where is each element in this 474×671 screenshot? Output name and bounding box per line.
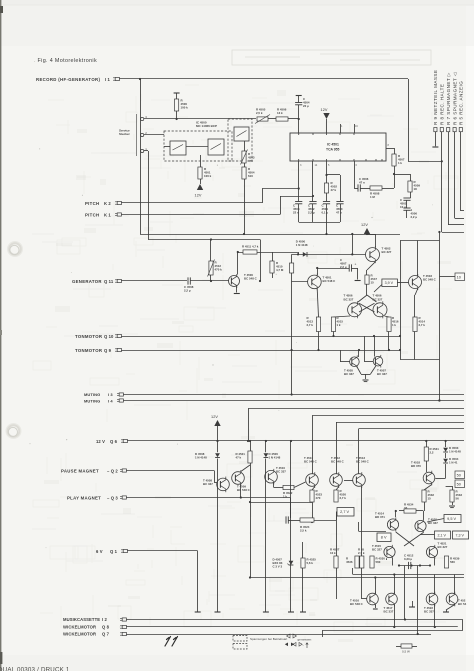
svg-text:BC 337: BC 337 [344, 372, 354, 376]
connector Q2 [120, 468, 122, 470]
svg-text:K 1: K 1 [104, 213, 111, 218]
wire emitter T4521 down [434, 558, 436, 565]
node on R8 line [441, 160, 443, 162]
svg-text:Stecker: Stecker [119, 132, 131, 136]
svg-text:BC 548 C: BC 548 C [237, 488, 251, 492]
wire service contact 3 rail y119 [144, 118, 256, 120]
svg-text:MUTING: MUTING [84, 392, 100, 397]
transistor Q4503 BC548C [409, 274, 422, 290]
diode D4508 1N4148 [217, 441, 219, 452]
voltage 8V [377, 533, 391, 542]
wire I2 wrap [462, 620, 464, 631]
connector Q11 [115, 279, 117, 281]
wire T4523 emitter [446, 605, 455, 611]
wire R4521 T4512 join [250, 502, 312, 504]
wire bottom bus [399, 565, 430, 567]
resistor R4503 470 trimmer [242, 151, 246, 163]
IC bottom pin stub 6 [354, 161, 356, 188]
ground bar above R4500 [174, 92, 180, 94]
svg-text:2,5 k: 2,5 k [256, 111, 263, 115]
diode D4506 1N4148 [265, 441, 267, 452]
wire bus line y415.5 [312, 415, 464, 417]
wire T4516 emitter gnd [375, 605, 377, 609]
transistor Q4509 BC548C [232, 470, 245, 486]
wire to 9.5V [427, 519, 444, 523]
connector Q9 [115, 348, 117, 350]
svg-text:gemessen: gemessen [298, 638, 312, 642]
wire T4514 base [359, 531, 386, 533]
diode D4507 BZX83 C3V3 zener [289, 561, 294, 565]
wire T4507 base feed [364, 336, 366, 361]
wire T4501 emitter [317, 289, 318, 317]
wire R4533 top [452, 486, 454, 490]
IC top pin stubs [340, 124, 342, 133]
wire T4503 collector [417, 241, 419, 276]
svg-text:BC 548 C: BC 548 C [356, 460, 370, 464]
IC U4501 TCA955 box [290, 133, 386, 161]
svg-text:BC 548 C: BC 548 C [350, 602, 364, 606]
transistor Q4522 BC337 [426, 592, 438, 607]
wire cap to ground [352, 268, 358, 270]
capacitor C4507 2.2u [348, 264, 350, 271]
resistor R4536 560 [355, 556, 359, 568]
transistor Q4521 BC327 [426, 545, 437, 559]
svg-text:I 2: I 2 [102, 617, 108, 622]
wire cap ground bus [299, 222, 340, 224]
supply 12V below R4501 [200, 179, 202, 184]
resistor R4547 15 [365, 275, 369, 284]
resistor R4500 100k [176, 93, 178, 99]
svg-text:2,7 V: 2,7 V [340, 510, 349, 514]
wire PAUSE MAGNET Q2 line [127, 470, 215, 472]
svg-text:BC 337: BC 337 [276, 470, 286, 474]
wire T4505 base feed [340, 350, 342, 362]
svg-text:47 n: 47 n [359, 181, 365, 185]
wire R4523 down [312, 502, 314, 522]
wire cross couple 2 [359, 303, 375, 312]
svg-text:I 1: I 1 [105, 77, 111, 82]
wire GENERATOR Q11 line [122, 280, 188, 282]
svg-text:R 7 SPURMAGNET ▷: R 7 SPURMAGNET ▷ [446, 72, 451, 125]
wire [288, 118, 299, 120]
wire T4506a emitter [334, 316, 351, 317]
svg-text:PAUSE MAGNET: PAUSE MAGNET [61, 469, 99, 474]
feedback loop wires [400, 240, 439, 242]
svg-text:PITCH: PITCH [85, 201, 99, 206]
svg-text:Spannungen bei Betriebsart: Spannungen bei Betriebsart [250, 637, 287, 641]
wire WICKELMOTOR Q7 line [127, 634, 432, 636]
svg-text:560: 560 [376, 560, 381, 564]
wire contact1 rail [144, 150, 148, 152]
svg-text:DUAL 00303 / DRUCK 1: DUAL 00303 / DRUCK 1 [0, 667, 70, 671]
wire right vertical x439 [439, 232, 441, 401]
svg-text:PITCH: PITCH [85, 213, 99, 218]
legend arrows gemessen [287, 634, 290, 638]
resistor R4508 1M [370, 186, 382, 190]
svg-text:MC 14066 BCP: MC 14066 BCP [196, 124, 217, 128]
svg-text:1 k: 1 k [337, 323, 341, 327]
connector Q6 [121, 439, 123, 441]
svg-text:4,7 M: 4,7 M [276, 268, 284, 272]
capacitor C4509 [285, 516, 287, 523]
resistor R4526 2.7k [336, 487, 339, 491]
capacitor C4508 2.2u [187, 277, 189, 284]
svg-text:1 M: 1 M [370, 195, 375, 199]
wire T4503 emitter [415, 289, 418, 296]
svg-text:BC 548 C: BC 548 C [244, 277, 258, 281]
wire D4500 line [292, 254, 366, 256]
svg-text:2,7 k: 2,7 k [419, 323, 426, 327]
node R4500 bottom [176, 118, 178, 120]
wire [288, 520, 300, 522]
wire right bus y577.5 [250, 577, 464, 579]
svg-text:BC 548 C: BC 548 C [423, 278, 437, 282]
wire R4514 down [414, 332, 416, 360]
resistor R4505 2.5k [257, 117, 268, 121]
wire S2 down [200, 155, 202, 167]
wire right vertical drop x408 [408, 79, 410, 161]
transistor Q4512 BC548C [330, 472, 343, 488]
wire T4518 emitter [424, 485, 432, 491]
svg-text:1 k: 1 k [283, 495, 287, 499]
capacitor C4503 22n [295, 201, 302, 203]
transistor Q4506a BC327 [348, 301, 362, 318]
svg-text:12V: 12V [361, 223, 368, 227]
svg-text:2,7 k: 2,7 k [307, 323, 314, 327]
handwritten mark 11 [165, 637, 178, 647]
wire to T4503 base [397, 282, 408, 284]
wire T4518 base [445, 474, 447, 478]
svg-text:10: 10 [457, 276, 461, 280]
wire contact1 rail y239.5 [148, 239, 260, 241]
node [291, 393, 293, 395]
switch S2 [208, 139, 224, 155]
IC bottom pin stub 3 [298, 161, 300, 202]
svg-text:2,5 k: 2,5 k [300, 529, 307, 533]
svg-text:BC 327: BC 327 [382, 250, 392, 254]
wire RECORD I1 line [120, 78, 409, 80]
node I3 flipflop tap [291, 349, 293, 351]
connector I2 [120, 617, 122, 619]
wire contact2 to switch box [144, 134, 164, 136]
svg-text:560: 560 [450, 560, 455, 564]
svg-text:R 8 REC. HALTE: R 8 REC. HALTE [440, 84, 445, 125]
wire T4522 collector [434, 575, 436, 594]
wire TONMOTOR Q9 line [122, 350, 401, 352]
node C4504 tap [298, 118, 300, 120]
svg-text:1 k: 1 k [392, 323, 396, 327]
svg-text:Q 10: Q 10 [104, 334, 114, 339]
trimmer R4512 470k [209, 261, 213, 275]
terminal mid [412, 601, 414, 607]
wire T4506b emitter [385, 316, 390, 317]
transistor Q4501 BC548C [308, 274, 322, 291]
wire PITCH K2 line [122, 202, 263, 204]
wire MUSIKCASSETTE I2 line [127, 619, 463, 621]
svg-text:15: 15 [428, 497, 432, 501]
diode D4500 1N4148 [303, 252, 307, 257]
terminal D4506 line [263, 611, 269, 613]
svg-text:R 5 REC. ANZEIG: R 5 REC. ANZEIG [459, 81, 464, 125]
transistor Q4502 BC327 [366, 246, 380, 263]
wire T4514 collector [395, 511, 397, 517]
resistor R4511 4.7k [243, 250, 257, 254]
wire [314, 520, 336, 522]
svg-text:2,2 µ: 2,2 µ [308, 211, 315, 215]
wire T4501 collector up [317, 268, 319, 275]
transistor Q4520 BC337 [415, 519, 426, 533]
svg-text:Q 8: Q 8 [102, 625, 110, 630]
wire PITCH K1 line [122, 214, 281, 216]
wire T4517 collector [394, 575, 396, 594]
resistor R4525 5.6k [302, 542, 304, 558]
svg-text:47 k: 47 k [331, 188, 337, 192]
svg-text:470: 470 [316, 496, 321, 500]
svg-text:47 k: 47 k [236, 456, 242, 460]
svg-text:TCA 955: TCA 955 [326, 148, 340, 152]
transistor Q4500 BC548C [229, 274, 240, 288]
resistor R4529 2.7k [361, 556, 363, 558]
resistor R4506 13k [276, 117, 288, 121]
capacitor C4505 10u [410, 192, 412, 198]
ground below R4533 [452, 502, 454, 505]
wire T4505 collector riser [358, 350, 360, 357]
wire T4523 collector [454, 575, 456, 594]
wire diag T4514 emitter [396, 532, 414, 546]
svg-text:18: 18 [414, 187, 418, 191]
wire to 2.1V [420, 534, 435, 536]
wire T4513 emitter down [361, 487, 363, 557]
svg-text:BD 370: BD 370 [411, 464, 421, 468]
wire supply rail y234 [140, 234, 400, 236]
capacitor C4501 0.1u [323, 201, 330, 203]
voltage 3.9V [382, 279, 398, 287]
wire T4510 emitter to R4522 [273, 483, 275, 488]
left scan edge [0, 0, 1, 671]
transistor Q4523 BC548 [446, 592, 458, 607]
wire riser to rail [352, 234, 354, 254]
transistor Q4517 BC337 [386, 592, 398, 607]
wire T4513 base [344, 480, 353, 482]
wire PLAY MAGNET Q3 line [127, 497, 291, 499]
svg-text:470: 470 [248, 159, 253, 163]
connector I3 [117, 392, 119, 394]
wire R4516 down [388, 332, 390, 351]
resistor R4510 4.7M [272, 252, 274, 261]
punch hole top [9, 243, 21, 255]
svg-text:GENERATOR: GENERATOR [72, 279, 102, 284]
svg-text:R 4511 4,7 k: R 4511 4,7 k [242, 245, 259, 249]
svg-text:470 k: 470 k [215, 268, 223, 272]
analog switch dashed box B [228, 119, 252, 161]
resistor R4546 [290, 263, 294, 273]
svg-text:BC 337: BC 337 [203, 482, 213, 486]
resistor R4515 1k [331, 317, 335, 332]
svg-text:IC 4501: IC 4501 [327, 143, 339, 147]
legend dashed box 2 [233, 644, 247, 650]
transistor Q4508 BC337 [217, 477, 230, 493]
svg-text:33: 33 [404, 506, 408, 510]
svg-text:12V: 12V [195, 194, 202, 198]
svg-text:3,9 V: 3,9 V [385, 281, 394, 285]
svg-text:0,33 µ: 0,33 µ [404, 557, 412, 561]
wire R4515 down [333, 332, 335, 337]
switch S1 [170, 141, 186, 155]
svg-text:1 N 4148: 1 N 4148 [195, 456, 207, 460]
analog switch IC4500 dashed box [164, 131, 232, 161]
svg-text:13 k: 13 k [277, 111, 283, 115]
wire R4513 down [318, 332, 320, 351]
wire T4502 collector [375, 234, 377, 248]
svg-text:WICKELMOTOR: WICKELMOTOR [63, 625, 96, 630]
capacitor C4504 22u [296, 95, 302, 97]
connector I1 [113, 77, 115, 79]
wire vertical from RECORD junction [140, 79, 142, 234]
wire x291 down [290, 441, 292, 612]
connector K2 [115, 201, 117, 203]
page ref box 10 [455, 273, 465, 281]
IC bottom pin stub 14 [312, 161, 314, 202]
svg-text:0,5 W: 0,5 W [402, 650, 410, 654]
svg-text:2,7 k: 2,7 k [340, 496, 347, 500]
connector Q1 [121, 549, 123, 551]
wire WICKELMOTOR Q8 line [127, 626, 458, 628]
wire T4522 emitter [434, 605, 436, 628]
node K2 to pin stub [298, 187, 300, 189]
wire 12V Q6 line [128, 440, 465, 442]
svg-text:BC 327: BC 327 [372, 548, 382, 552]
svg-text:BC 548 C: BC 548 C [323, 279, 337, 283]
voltage 7.3V [453, 531, 469, 539]
terminal Q1 [195, 611, 201, 613]
wire TONMOTOR Q10 line [122, 336, 401, 338]
connector Q7 [120, 632, 122, 634]
resistor R4530 560 [386, 558, 388, 560]
svg-text:2,2 µ: 2,2 µ [184, 289, 191, 293]
node [325, 174, 327, 176]
resistor R4531 2.2 [426, 441, 428, 447]
svg-text:– Q 2: – Q 2 [107, 469, 118, 474]
wire bus line y408.5 [248, 408, 464, 410]
wire [298, 252, 300, 254]
svg-text:MUTING: MUTING [84, 398, 100, 403]
node K1 to pin stub [312, 195, 314, 197]
transistor Q4510 BC337 [265, 469, 278, 485]
wire MUTING I4 line [124, 400, 465, 402]
resistor R4523 470 [312, 487, 315, 491]
wire [292, 281, 308, 283]
switch S3 [234, 127, 249, 141]
svg-text:C 3 V 3: C 3 V 3 [273, 565, 283, 569]
page ref box 50a [455, 471, 465, 479]
svg-text:WICKELMOTOR: WICKELMOTOR [63, 632, 96, 637]
node [438, 399, 440, 401]
resistor R4533 56 [450, 490, 454, 502]
transistor Q4515 BC327 [384, 545, 395, 559]
svg-text:Q 6: Q 6 [110, 439, 118, 444]
wire R4527 chain [336, 512, 338, 557]
svg-text:0,1 µ: 0,1 µ [322, 211, 329, 215]
svg-text:5,6 k: 5,6 k [307, 561, 314, 565]
legend dashed box measured [233, 636, 247, 642]
capacitor C4506b [406, 200, 408, 208]
svg-text:BC 337: BC 337 [377, 372, 387, 376]
wire cross couple [359, 303, 375, 312]
svg-text:PLAY MAGNET: PLAY MAGNET [67, 496, 101, 501]
transistor Q4511 BC548C [306, 472, 319, 488]
connector Q3 [120, 495, 122, 497]
wire emitter T4500 [236, 287, 238, 293]
wire x405 down [404, 566, 406, 620]
svg-text:10 µ: 10 µ [400, 205, 406, 209]
wire bus line y422 [336, 422, 464, 424]
wire T4507 collector riser [374, 336, 376, 357]
resistor R4524 2.5k [300, 518, 314, 522]
svg-text:1 k: 1 k [398, 161, 402, 165]
resistor R4522 1k [283, 485, 294, 489]
svg-text:2,2 µ: 2,2 µ [411, 215, 418, 219]
svg-text:I 4: I 4 [108, 398, 113, 403]
legend arrows 2 [285, 643, 288, 647]
resistor R4535 560 [444, 556, 448, 568]
svg-text:I 3: I 3 [108, 392, 113, 397]
svg-text:RECORD (HF-GENERATOR): RECORD (HF-GENERATOR) [36, 77, 100, 82]
resistor R4516 1k [387, 317, 391, 332]
legend resistor 0.5W [396, 646, 401, 648]
transistor Q4507 BC337 [373, 355, 383, 368]
svg-text:2,2 µ: 2,2 µ [340, 265, 347, 269]
svg-text:R 9 NETZTEIL MASSE: R 9 NETZTEIL MASSE [433, 70, 438, 125]
svg-text:47 µ: 47 µ [336, 211, 342, 215]
svg-text:10 k: 10 k [330, 551, 336, 555]
wire T4509 collector [241, 465, 250, 472]
wire Y from R4547 [358, 295, 367, 302]
svg-text:Q 1: Q 1 [110, 549, 118, 554]
resistor R4527 10k [334, 556, 338, 568]
wire diag T4520 emitter [404, 533, 423, 547]
svg-text:BC 548 C: BC 548 C [304, 460, 318, 464]
terminal x303 [300, 611, 306, 613]
svg-text:1 N 4148: 1 N 4148 [269, 456, 281, 460]
wire bus line y428.5 [359, 428, 464, 430]
resistor R4534 33 [399, 510, 404, 512]
resistor R4501 100k [198, 167, 202, 179]
node RECORD junction [139, 78, 141, 80]
terminal x291 [288, 611, 294, 613]
svg-text:12V: 12V [321, 108, 328, 112]
wire T4502 emitter [367, 262, 375, 270]
capacitor C4502 2.2u [309, 201, 316, 203]
diode D4503 1N4148 [445, 441, 447, 447]
diode D4504 1N4148 [445, 453, 447, 458]
ground [363, 379, 369, 381]
node [243, 233, 245, 235]
svg-text:BC 548 C: BC 548 C [331, 460, 345, 464]
resistor R4532 15 [422, 490, 426, 502]
connector Q10 [115, 334, 117, 336]
wire C4507 line [317, 268, 349, 270]
svg-text:100 k: 100 k [204, 174, 212, 178]
svg-text:BC 327: BC 327 [344, 297, 354, 301]
wire 3.9V pointer [374, 285, 382, 293]
terminal 12V line [215, 611, 221, 613]
voltage 9.5V [444, 515, 461, 523]
svg-text:BC 337: BC 337 [384, 610, 394, 614]
svg-text:Fig. 4 Motorelektronik: Fig. 4 Motorelektronik [38, 58, 98, 64]
svg-text:56: 56 [456, 497, 460, 501]
wire MUTING I3 line [124, 394, 465, 396]
svg-text:12 V: 12 V [96, 439, 105, 444]
